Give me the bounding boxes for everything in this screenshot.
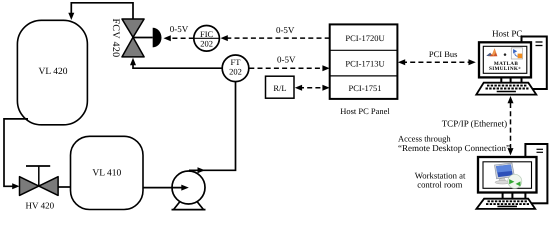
arrow into pump xyxy=(181,185,189,191)
svg-text:HV 420: HV 420 xyxy=(26,200,55,210)
arrow on discharge line xyxy=(198,167,206,173)
wire: FT202 to FCV420 bottom xyxy=(133,63,223,68)
MATLAB logo on host screen xyxy=(486,48,522,59)
workstation monitor xyxy=(478,157,537,193)
host PC tower xyxy=(522,37,547,90)
svg-text:202: 202 xyxy=(229,67,242,77)
svg-text:VL 420: VL 420 xyxy=(39,67,68,77)
svg-text:R/L: R/L xyxy=(273,83,286,93)
workstation keys xyxy=(486,201,529,206)
svg-text:FCV 420: FCV 420 xyxy=(110,19,121,58)
workstation tower xyxy=(525,144,547,203)
svg-text:Host PC Panel: Host PC Panel xyxy=(340,106,390,116)
arrow into VL420 top xyxy=(68,13,74,20)
wire: dashed PCI-1720U to FIC202 xyxy=(226,37,330,39)
svg-text:Host PC: Host PC xyxy=(492,29,522,39)
wire: pump discharge up to FT202 xyxy=(189,82,236,171)
svg-text:TCP/IP (Ethernet): TCP/IP (Ethernet) xyxy=(442,118,507,128)
vessel VL 410 xyxy=(71,136,144,209)
host PC monitor xyxy=(479,42,531,77)
svg-text:PCI Bus: PCI Bus xyxy=(429,49,458,59)
vessel VL 420 xyxy=(17,20,87,125)
svg-text:VL 410: VL 410 xyxy=(92,169,121,179)
pump xyxy=(172,171,206,210)
host PC keyboard xyxy=(476,83,536,95)
arrow into actuator xyxy=(164,35,171,41)
wire: pipe VL410 to pump xyxy=(143,187,182,189)
wire: dashed FT202 to PCI-1713U xyxy=(249,67,325,69)
svg-text:0-5V: 0-5V xyxy=(276,25,295,35)
svg-text:PCI-1751: PCI-1751 xyxy=(348,83,381,93)
valve FCV 420 xyxy=(110,19,144,58)
svg-text:Access through: Access through xyxy=(398,133,451,143)
arrow into FIC202 xyxy=(221,35,228,41)
svg-text:FIC: FIC xyxy=(200,29,214,39)
box R/L xyxy=(266,76,295,98)
instrument FT 202 xyxy=(222,55,249,82)
actuator diaphragm dome xyxy=(153,28,162,48)
arrow up into host keyboard xyxy=(508,96,514,103)
workstation monitor stand feet xyxy=(503,193,513,199)
arrow down into workstation monitor xyxy=(508,148,514,155)
arrow into HV420 xyxy=(12,183,19,189)
wire: pipe from FCV420 top over to VL420 top xyxy=(71,3,133,20)
svg-text:0-5V: 0-5V xyxy=(277,55,296,65)
host PC keys xyxy=(486,86,529,92)
svg-text:202: 202 xyxy=(200,39,213,49)
wire: dashed FIC202 to actuator xyxy=(170,37,194,39)
remote desktop icon on workstation screen xyxy=(495,163,522,188)
wire: dashed R/L to PCI-1751 (double arrow) xyxy=(299,87,326,89)
wire: dashed PCI Bus (double arrow) xyxy=(402,61,472,63)
wire: dashed TCP/IP (Ethernet) link xyxy=(510,103,512,148)
svg-text:control room: control room xyxy=(417,179,462,189)
wire: pipe from VL420 lower-left to HV420 xyxy=(4,119,28,186)
svg-text:“Remote Desktop Connection”: “Remote Desktop Connection” xyxy=(398,143,510,153)
valve HV 420 xyxy=(20,166,59,210)
panel Host PC Panel xyxy=(330,24,398,116)
wire: pipe HV420 to VL410 xyxy=(58,186,71,188)
svg-text:FT: FT xyxy=(231,57,242,67)
arrow into panel (0-5V) xyxy=(322,65,329,71)
instrument FIC 202 xyxy=(194,26,220,52)
actuator stem xyxy=(133,37,153,39)
svg-text:PCI-1720U: PCI-1720U xyxy=(345,33,384,43)
svg-text:PCI-1713U: PCI-1713U xyxy=(345,58,384,68)
svg-text:SIMULINK®: SIMULINK® xyxy=(489,66,521,72)
arrow into FCV420 bottom xyxy=(130,58,136,65)
workstation keyboard xyxy=(476,199,535,209)
host PC monitor stand feet xyxy=(501,77,510,82)
svg-text:0-5V: 0-5V xyxy=(170,24,189,34)
